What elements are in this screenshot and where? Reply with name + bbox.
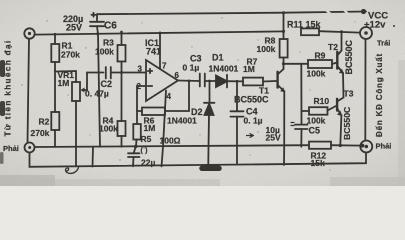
wire VCC top rail xyxy=(97,12,366,15)
ground chassis squiggle xyxy=(66,168,79,174)
resistor R11 15k xyxy=(301,28,319,35)
wire output pin6 xyxy=(178,80,200,83)
capacitor C2 coupling 0,47u xyxy=(106,67,146,79)
wire pin2 lead xyxy=(137,86,146,111)
capacitor 22u electrolytic xyxy=(128,147,140,166)
resistor R6 feedback 1M xyxy=(137,81,189,115)
transistor Q3 T3 BC550C xyxy=(337,98,344,117)
wire pin7 riser xyxy=(159,33,161,69)
resistor R4 xyxy=(118,73,126,147)
scan speckles xyxy=(21,17,355,170)
resistor R1 xyxy=(51,35,59,72)
wire upper bias rail (left jack to R11) xyxy=(35,31,284,34)
wire R12 to right jack Phai xyxy=(331,144,362,146)
op-amp U1 IC1 741 xyxy=(146,60,178,101)
transistor Q2 T2 BC550C xyxy=(337,32,344,74)
connector jack output bottom-right Phai xyxy=(360,141,372,153)
wire lower shield rail xyxy=(30,153,367,167)
capacitor C4 0,1u xyxy=(231,81,244,164)
resistor R9 100k xyxy=(308,60,337,68)
wire T3 emitter to output rail xyxy=(340,115,341,145)
node T3 emitter rail junction xyxy=(339,144,342,147)
capacitor C6 electrolytic 220u 25V xyxy=(90,13,104,34)
resistor R2 xyxy=(51,72,59,147)
connector jack input top-left xyxy=(24,28,34,38)
scan smudges along edges xyxy=(0,60,405,186)
diode D2 1N4001 shunt xyxy=(204,81,215,147)
transistor Q1 T1 BC550C xyxy=(278,69,286,92)
polarity arrow for C5 value xyxy=(247,134,254,138)
wire mid rail to lower rail connector xyxy=(92,147,95,167)
wire collector node to C5 column xyxy=(300,64,302,125)
node R5 ground junction xyxy=(134,145,138,149)
wire C6 column down to mid rail xyxy=(98,34,100,147)
node D2 junction xyxy=(208,80,211,83)
resistor R5 100 ohm xyxy=(133,111,141,147)
connector jack input bottom-left Phai xyxy=(25,143,35,153)
node R8 top rail junction xyxy=(282,11,285,14)
wire VR1 column to lower rail xyxy=(75,147,77,167)
diode D1 1N4001 xyxy=(216,75,243,88)
wire T2 emitter to T3 collector xyxy=(342,73,345,98)
node R8 bias rail junction xyxy=(282,30,285,33)
node rail junction dots xyxy=(54,31,162,36)
wire pin4 lead to rails xyxy=(162,91,167,167)
wire gap artifacts on top rail xyxy=(326,10,348,14)
capacitor C3 0,1u xyxy=(200,74,216,87)
node C4 junction xyxy=(236,80,239,83)
node dot at right Phai jack tip xyxy=(360,144,364,148)
resistor R12 15k xyxy=(309,142,331,149)
wire collector node to R9 xyxy=(284,63,309,65)
node VCC terminal dot xyxy=(361,9,366,14)
wire right column between right jacks xyxy=(364,39,366,140)
node output junction xyxy=(188,80,191,83)
node T1 collector junction xyxy=(282,62,285,65)
resistor R10 100k xyxy=(302,106,337,115)
wire left edge column joining both left jacks xyxy=(28,39,30,143)
potentiometer VR1 xyxy=(55,71,104,147)
wire D2 column to lower rail and ground blob xyxy=(202,147,219,168)
node pin3 bias junction xyxy=(120,71,123,74)
node T2 collector rail junction xyxy=(340,30,343,33)
connector jack output top-right Trai xyxy=(360,27,372,39)
wire R11 to right jack Trai xyxy=(319,31,360,32)
wire mid ground rail (left jack to R12) xyxy=(35,145,309,147)
resistor R8 100k xyxy=(280,13,288,69)
resistor R7 1M xyxy=(243,78,276,86)
wire T1 emitter column xyxy=(283,91,285,165)
capacitor C5 10u 25V xyxy=(291,123,308,147)
resistor R3 xyxy=(118,32,126,73)
